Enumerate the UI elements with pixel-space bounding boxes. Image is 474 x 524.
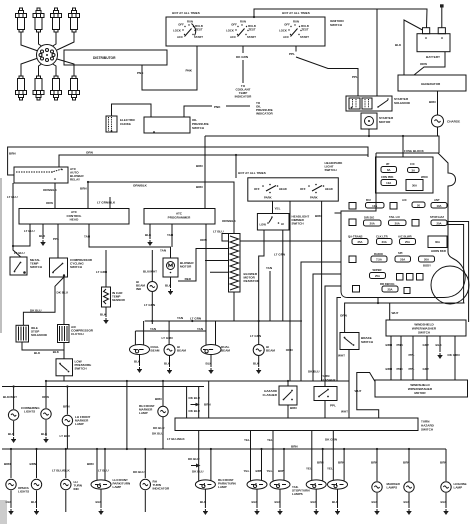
svg-text:ANT: ANT — [434, 198, 440, 202]
spark plug P6 — [33, 76, 44, 100]
svg-text:MOTOR: MOTOR — [180, 265, 192, 269]
wire BLK cornering L ground — [8, 421, 15, 436]
wire turn flasher to bar — [325, 401, 336, 419]
breaker 30A HORN BKR — [428, 236, 447, 253]
svg-text:10A: 10A — [372, 204, 377, 208]
svg-text:PPL: PPL — [409, 367, 415, 371]
electric choke — [106, 116, 136, 132]
cornering lamp L — [8, 410, 18, 420]
wire plug6 to distributor — [39, 63, 44, 76]
svg-text:10A: 10A — [436, 204, 441, 208]
svg-text:ORN/BLK: ORN/BLK — [133, 183, 148, 187]
svg-text:LAMP: LAMP — [139, 411, 148, 415]
svg-text:8A: 8A — [387, 168, 391, 172]
wire hazard flasher to bar — [288, 381, 297, 418]
wire DK BLU cycling switch to compressor clutch — [57, 277, 69, 325]
svg-text:25A: 25A — [387, 288, 392, 292]
svg-text:BLK: BLK — [332, 500, 339, 504]
ground rh park/turn — [203, 509, 208, 515]
svg-text:GRY: GRY — [423, 367, 430, 371]
svg-text:BRN: BRN — [291, 445, 298, 449]
fuse CRN PRK 10A — [381, 175, 397, 186]
svg-text:ORN: ORN — [340, 314, 347, 318]
wire PPL head to compressor cycling switch — [53, 224, 59, 258]
node bus junction dots — [10, 380, 410, 450]
ground license — [444, 509, 449, 515]
wire ORN bus y155 — [59, 151, 368, 168]
svg-text:PPL: PPL — [53, 237, 59, 241]
wire BRN opera light L — [4, 449, 11, 478]
ground head BLK — [41, 240, 46, 246]
ground tail2 — [278, 509, 283, 515]
svg-text:CLUTCH: CLUTCH — [71, 332, 84, 336]
svg-text:LIGHTS: LIGHTS — [24, 410, 35, 414]
svg-text:DK BLU: DK BLU — [152, 432, 164, 436]
svg-text:BLK: BLK — [34, 351, 41, 355]
svg-text:WHT: WHT — [341, 410, 348, 414]
svg-text:LT GRN: LT GRN — [250, 334, 261, 338]
lh front marker lamp — [62, 415, 72, 425]
wire ORN head/park down — [286, 201, 293, 381]
connector square row2 a — [349, 203, 356, 210]
svg-text:LT BLU: LT BLU — [60, 434, 71, 438]
scan artifact left edge — [0, 178, 2, 333]
svg-text:BRN: BRN — [87, 462, 94, 466]
wire DK BLU branch to idle stop solenoid — [23, 277, 64, 325]
wire LT BLU relay to metal temp switch — [7, 183, 25, 257]
svg-text:TAN: TAN — [167, 233, 173, 237]
svg-text:PNK: PNK — [397, 343, 404, 347]
a/c compressor clutch — [58, 325, 94, 343]
ATC programmer — [144, 209, 215, 225]
wire YEL tail lamp 4a — [325, 431, 337, 481]
svg-text:ORN: ORN — [420, 62, 427, 66]
svg-text:20A: 20A — [370, 222, 375, 226]
svg-text:BATTERY: BATTERY — [426, 55, 440, 59]
dual beam headlamp LH — [130, 345, 160, 355]
fuse block outline — [341, 153, 465, 298]
svg-text:IND: IND — [136, 287, 142, 291]
wire fuse exits staircase — [301, 262, 341, 381]
svg-text:BLK: BLK — [164, 362, 171, 366]
ground opera L — [9, 509, 14, 515]
svg-text:DK BLU: DK BLU — [153, 426, 165, 430]
node hazard junction — [287, 380, 289, 382]
cornering lights label — [21, 406, 40, 414]
wire BLK blower ground — [165, 277, 172, 288]
svg-text:LT BLU: LT BLU — [14, 251, 25, 255]
blower motor — [163, 258, 194, 277]
ground headlamp LH — [167, 368, 172, 374]
wire LT BLU lh marker down — [60, 426, 71, 449]
wire BLK clutch to low pressure switch — [53, 343, 64, 359]
ground cornering R — [44, 437, 49, 443]
wire lamp bus B y331 — [135, 327, 206, 331]
charge indicator lamp — [432, 115, 461, 127]
svg-text:SWITCH: SWITCH — [75, 367, 87, 371]
svg-text:ORN: ORN — [286, 348, 293, 352]
wire LT BLU fuse to resistor — [213, 230, 341, 242]
svg-text:BRN: BRN — [4, 462, 11, 466]
svg-text:BLK/WHT: BLK/WHT — [3, 395, 17, 399]
ignition wafer 3 — [279, 20, 309, 40]
node orn junction — [235, 154, 237, 156]
headlamp RH hi beam — [253, 345, 275, 356]
wire ORN battery to generator — [414, 52, 445, 75]
svg-text:BLK: BLK — [253, 362, 260, 366]
svg-text:PPL: PPL — [409, 353, 415, 357]
wire LT BLU lh park/turn — [98, 449, 109, 481]
svg-text:C/C: C/C — [410, 162, 415, 166]
wire BLK opera R ground — [31, 491, 38, 509]
rh front marker label — [139, 404, 155, 415]
svg-text:LAMPS: LAMPS — [292, 492, 303, 496]
wire main bus y136 to fuse block — [205, 127, 439, 157]
fuse TAIL L/C 20A — [389, 215, 407, 226]
wire head park switch feed — [235, 155, 237, 178]
ground tail1 — [255, 509, 260, 515]
opera lights label — [18, 486, 30, 494]
tail stop/turn lamp 2 — [270, 480, 290, 489]
wire ORN fuse to brake switch and wiper switch — [340, 298, 465, 333]
svg-text:BRN: BRN — [80, 187, 87, 191]
svg-text:BRN: BRN — [403, 461, 410, 465]
svg-text:HOT AT ALL TIMES: HOT AT ALL TIMES — [238, 171, 266, 175]
wire BLK opera L ground — [6, 491, 13, 509]
svg-text:LOW: LOW — [260, 223, 267, 227]
svg-text:7.5A: 7.5A — [376, 258, 382, 262]
svg-text:DK BLU: DK BLU — [57, 291, 69, 295]
node starter bus junction — [368, 135, 370, 137]
svg-text:HEAD: HEAD — [279, 187, 287, 191]
svg-text:SWITCH: SWITCH — [330, 23, 342, 27]
svg-text:HOT AT ALL TIMES: HOT AT ALL TIMES — [282, 11, 310, 15]
svg-text:YEL: YEL — [267, 469, 273, 473]
starter motor — [361, 113, 394, 129]
connector arrow rh park/turn — [191, 464, 201, 468]
svg-text:LT BLU: LT BLU — [213, 230, 224, 234]
wire main bus y147 — [8, 147, 368, 175]
wire PNK to oil pressure indicator — [184, 101, 273, 117]
head/park light switch label — [325, 161, 344, 172]
svg-text:SWITCH: SWITCH — [30, 265, 42, 269]
svg-text:CLK LTR: CLK LTR — [376, 235, 388, 239]
svg-text:ORN/BLK: ORN/BLK — [222, 219, 237, 223]
fuse SPI 20A — [395, 251, 411, 262]
wire battery feed bus — [254, 9, 427, 96]
wire bus y449 — [2, 448, 446, 450]
svg-text:10A: 10A — [386, 181, 391, 185]
scan artifact bottom left — [0, 500, 7, 524]
wire LT GRN hi beam ind to bus — [144, 292, 155, 325]
svg-text:PPL: PPL — [330, 404, 336, 408]
svg-text:DISTRIBUTOR: DISTRIBUTOR — [93, 56, 116, 60]
svg-text:WHT: WHT — [355, 389, 362, 393]
wire DK GRN to coolant temp indicator — [235, 46, 252, 99]
svg-text:20A: 20A — [424, 258, 429, 262]
svg-text:CHOKE: CHOKE — [120, 122, 131, 126]
svg-text:CRN PRK: CRN PRK — [381, 175, 394, 179]
rh front marker lamp — [158, 406, 168, 416]
wire LT GRN dimmer HI to lamp bus — [274, 230, 285, 321]
ground marker2 — [407, 509, 412, 515]
svg-text:SWITCH: SWITCH — [418, 331, 430, 335]
marker lamps label — [387, 482, 401, 490]
svg-text:TAN: TAN — [177, 316, 183, 320]
marker lamp 1 — [372, 482, 382, 492]
wire BRN license lamp — [440, 449, 447, 481]
wire plug2 to distributor — [39, 32, 44, 47]
ignition wafer 1 — [173, 20, 203, 40]
fuse A/C BLWR 25A — [398, 235, 416, 245]
svg-text:BEAM: BEAM — [177, 349, 186, 353]
svg-text:BRN: BRN — [371, 461, 378, 465]
wire choke feed — [112, 104, 152, 117]
head/park wafer 1 — [254, 184, 287, 200]
wire BLK marker2 ground — [404, 493, 411, 508]
svg-text:BLK: BLK — [372, 500, 379, 504]
wire TAN resistor to lamp bus — [266, 266, 272, 321]
ground dual beam LH — [137, 367, 142, 373]
svg-text:YEL: YEL — [244, 438, 250, 442]
svg-text:BRN: BRN — [317, 461, 324, 465]
headlight dimmer switch — [257, 214, 309, 231]
opera light R — [31, 479, 41, 489]
svg-text:OFF: OFF — [254, 187, 260, 191]
svg-text:INDICATOR: INDICATOR — [153, 487, 170, 491]
svg-text:BRN: BRN — [278, 469, 285, 473]
svg-text:PNC: PNC — [397, 367, 404, 371]
wire BRN tail lamp 3b — [317, 449, 324, 481]
svg-text:BLK: BLK — [441, 500, 448, 504]
wire RED resistor to blower — [178, 277, 196, 281]
tail stop/turn lamps label — [292, 485, 310, 496]
wire headlamp LH feed — [162, 321, 173, 345]
lh front park/turn lamp — [91, 480, 111, 489]
fuse DIR SIG 20A — [364, 216, 382, 227]
svg-text:LAMP: LAMP — [454, 486, 463, 490]
svg-text:DK BLU: DK BLU — [188, 457, 200, 461]
svg-text:20A: 20A — [436, 221, 441, 225]
svg-text:SWITCH: SWITCH — [70, 265, 82, 269]
svg-text:25A: 25A — [405, 240, 410, 244]
svg-text:BRN: BRN — [204, 403, 211, 407]
svg-text:TAN: TAN — [150, 327, 156, 331]
dual beam headlamp wires — [206, 321, 216, 345]
svg-text:PARK: PARK — [310, 196, 318, 200]
svg-text:A/C: A/C — [402, 198, 407, 202]
lh front park/turn label — [113, 478, 131, 489]
wire lh turn ind ground — [65, 491, 67, 513]
svg-text:BLK: BLK — [134, 360, 141, 364]
fuse RADIO 7.5A — [371, 252, 387, 262]
wire BLK dual beam ground — [206, 355, 213, 368]
ground marker1 — [375, 509, 380, 515]
fuse STOP-HAZ 20A — [430, 215, 447, 226]
wire BLK headlamp RH ground — [253, 356, 260, 368]
svg-text:FLASHER: FLASHER — [263, 393, 278, 397]
svg-text:IND: IND — [74, 487, 80, 491]
svg-text:SWITCH: SWITCH — [292, 222, 304, 226]
wire programmer feed — [204, 136, 206, 209]
svg-text:LT GRN: LT GRN — [96, 270, 107, 274]
ground blower — [168, 289, 173, 295]
svg-text:SENSOR: SENSOR — [112, 298, 126, 302]
svg-text:B/U: B/U — [366, 198, 371, 202]
svg-text:BLK: BLK — [275, 500, 282, 504]
wire DK BLU rh turn ind — [133, 449, 145, 478]
rh turn indicator — [140, 479, 150, 489]
wire BRN tail lamp 2b — [278, 449, 285, 481]
svg-text:PARK: PARK — [264, 196, 272, 200]
wire BLK tail1 ground — [252, 489, 259, 508]
opera light L — [6, 479, 16, 489]
svg-text:BEAM: BEAM — [221, 349, 230, 353]
svg-text:OFF: OFF — [300, 187, 306, 191]
svg-text:BRN: BRN — [256, 469, 263, 473]
wire BLK license ground — [441, 493, 448, 508]
svg-text:FLASHER: FLASHER — [321, 378, 336, 382]
svg-text:LAMP: LAMP — [113, 485, 122, 489]
wire BLK sensor ground — [100, 307, 107, 317]
wire DK BLU bus to bar — [189, 387, 201, 419]
fuse QA-TRANS 25A — [348, 235, 368, 245]
svg-text:HEAD: HEAD — [325, 187, 333, 191]
wire BLK rh park/turn ground — [200, 489, 207, 508]
svg-text:DK BLU: DK BLU — [30, 308, 42, 312]
wire BLK tail2 ground — [275, 489, 282, 508]
ground cornering L — [11, 437, 16, 443]
wire bar feed drops — [187, 381, 211, 418]
svg-text:BRN: BRN — [196, 185, 203, 189]
svg-text:BRN: BRN — [338, 461, 345, 465]
connector squares row6 — [397, 274, 424, 281]
wire BRN tail lamp 1b — [256, 449, 263, 481]
svg-text:ORN: ORN — [86, 151, 93, 155]
svg-text:BRN: BRN — [429, 100, 436, 104]
wire DK GRN rh marker down — [153, 417, 165, 449]
tail stop/turn lamp 3 — [306, 480, 326, 489]
svg-text:BLK: BLK — [39, 234, 46, 238]
wire BRN generator to charge indicator — [429, 91, 438, 115]
svg-text:BLK: BLK — [96, 500, 103, 504]
svg-text:GENERATOR: GENERATOR — [421, 82, 441, 86]
svg-text:MOTOR: MOTOR — [379, 120, 391, 124]
svg-text:30A: 30A — [412, 184, 417, 188]
svg-text:BRN: BRN — [30, 462, 37, 466]
ground wiper switch — [438, 353, 443, 359]
svg-text:DK GRN: DK GRN — [325, 438, 337, 442]
svg-text:PNK: PNK — [186, 69, 193, 73]
svg-text:BLK: BLK — [404, 500, 411, 504]
wire fuse exit B/U left — [335, 212, 342, 214]
svg-text:HEAD: HEAD — [70, 218, 79, 222]
generator — [398, 75, 466, 91]
svg-text:LT GRN/BLK: LT GRN/BLK — [97, 201, 116, 205]
wire PNK wiper switch — [397, 336, 404, 380]
svg-text:LIGHTS: LIGHTS — [18, 490, 29, 494]
svg-text:BLK: BLK — [145, 233, 152, 237]
brake switch — [340, 333, 373, 350]
svg-text:TAN: TAN — [197, 327, 203, 331]
connector square row2 b — [390, 203, 397, 210]
svg-text:DK BLU: DK BLU — [308, 370, 320, 374]
svg-text:25A: 25A — [375, 274, 380, 278]
wire YEL tail lamp 3a — [306, 431, 312, 481]
svg-text:BLK: BLK — [53, 350, 60, 354]
ground lh park/turn — [99, 509, 104, 515]
svg-text:CHARGE: CHARGE — [447, 120, 460, 124]
wire plug4 to distributor — [57, 32, 74, 50]
fuse A/C 20 — [402, 198, 425, 208]
spark plug P8 — [69, 76, 80, 100]
wire BLK headlamp LH ground — [164, 356, 171, 368]
svg-text:20A: 20A — [400, 258, 405, 262]
wire plug8 to distributor — [57, 59, 74, 76]
wire PPL wiper switch — [409, 336, 415, 380]
battery — [417, 28, 450, 59]
connector square row3 a — [349, 219, 356, 226]
wire BRN tail lamp 4b — [338, 449, 345, 481]
wire YEL head/park to dimmer — [273, 201, 281, 213]
wire plug5 to distributor — [21, 58, 38, 76]
ground programmer BLK — [148, 240, 153, 246]
svg-text:STOP-HAZ: STOP-HAZ — [430, 215, 444, 219]
svg-text:DIR SIG: DIR SIG — [364, 216, 374, 220]
svg-text:DK GRN: DK GRN — [236, 55, 248, 59]
wire PNK distributor to ignition switch START — [137, 46, 197, 90]
wire YEL tail lamp 2a — [267, 431, 274, 481]
wire TAN programmer — [167, 224, 173, 247]
wire LT GRN/BLK control head — [97, 197, 116, 209]
turn flasher — [314, 374, 337, 401]
svg-text:BRN: BRN — [440, 461, 447, 465]
wire bus y378 — [45, 380, 349, 382]
ignition switch box — [166, 17, 325, 46]
svg-text:BRN: BRN — [63, 405, 70, 409]
svg-text:INDICATOR: INDICATOR — [256, 112, 273, 116]
svg-text:SPI: SPI — [398, 251, 403, 255]
svg-text:BLK: BLK — [41, 432, 48, 436]
wire resistor taps — [196, 249, 229, 278]
wire BLK wiper switch ground — [436, 336, 443, 352]
wire BRN wiper switch — [386, 336, 393, 380]
lh turn indicator — [61, 479, 71, 489]
svg-text:LT GRN: LT GRN — [144, 303, 155, 307]
svg-text:SOLENOID: SOLENOID — [394, 101, 411, 105]
svg-text:BLK: BLK — [8, 432, 15, 436]
svg-text:YEL: YEL — [306, 467, 312, 471]
idle stop solenoid — [16, 325, 48, 342]
wire low pressure switch to bus — [63, 376, 65, 381]
tail stop/turn lamp 1 — [247, 480, 267, 489]
rh front park/turn label — [218, 478, 236, 489]
svg-text:WHT: WHT — [338, 354, 345, 358]
connector square row3 b — [412, 220, 419, 227]
in car temp sensor — [96, 250, 126, 307]
svg-text:QA-TRANS: QA-TRANS — [348, 235, 363, 239]
rh turn ind label — [153, 480, 170, 491]
ignition wafer 2 — [226, 20, 256, 40]
spark plug P4 — [69, 8, 80, 32]
spark plug P2 — [33, 8, 44, 32]
wire ORN/BLK relay to control head — [43, 183, 58, 209]
wire plug7 to distributor — [51, 63, 56, 76]
svg-text:YEL: YEL — [327, 467, 333, 471]
svg-text:FUSE BLOCK: FUSE BLOCK — [404, 149, 425, 153]
svg-text:YEL: YEL — [244, 469, 250, 473]
svg-text:LAMP: LAMP — [75, 422, 84, 426]
